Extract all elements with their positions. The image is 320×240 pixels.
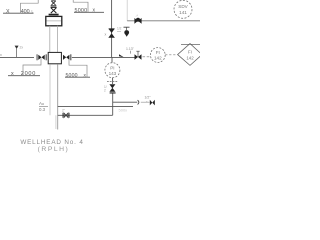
label X 2000 leader [23, 58, 41, 75]
svg-text:x: x [105, 33, 107, 37]
wellhead master block [48, 52, 61, 63]
label 5000 X leader [73, 0, 88, 12]
crown valve (second X valve) [51, 7, 57, 13]
svg-text:2000: 2000 [21, 71, 36, 77]
test branch continuation [141, 101, 150, 103]
riser segment below bubble [112, 78, 114, 84]
flowloop top line [58, 105, 133, 107]
kill line from left edge [0, 56, 34, 58]
FE top line [181, 43, 200, 45]
label X 400 underline [3, 12, 34, 14]
riser bleed valve caps [109, 29, 115, 38]
choke valve stem [136, 51, 139, 57]
svg-text:FI: FI [156, 50, 160, 55]
svg-text:400: 400 [21, 9, 30, 15]
swab valve (top small X valve) [51, 1, 56, 5]
riser lower segment [112, 94, 114, 116]
tree spool block [46, 16, 62, 25]
svg-text:143: 143 [109, 71, 117, 76]
utility connector [150, 100, 155, 106]
svg-text:(RPLH): (RPLH) [38, 146, 70, 153]
svg-text:0.3: 0.3 [39, 107, 46, 112]
choke label leader tick [130, 51, 132, 54]
instrument bubble SDV 141 [174, 0, 192, 18]
svg-text:1.13": 1.13" [126, 47, 135, 51]
svg-text:2: 2 [104, 88, 106, 92]
svg-text:x: x [0, 53, 2, 57]
hose break hook [138, 100, 139, 104]
svg-text:L: L [32, 10, 34, 14]
svg-text:141: 141 [179, 10, 187, 15]
svg-text:500x: 500x [119, 108, 128, 113]
tree cap flange bar [49, 14, 59, 16]
production wing valve [63, 54, 71, 60]
loop drain valve [63, 113, 69, 118]
annulus double line (lower) [49, 64, 51, 115]
flow harpoon arrow [119, 54, 124, 57]
tree spool midline [47, 20, 62, 22]
flowline to right [72, 56, 135, 58]
ESD header drop [126, 0, 128, 21]
svg-text:Aa: Aa [39, 101, 44, 106]
svg-text:1/2: 1/2 [117, 27, 122, 31]
casing line (lower) [57, 64, 59, 129]
casing stub left line [55, 115, 57, 129]
signal dashes to FI [143, 56, 151, 58]
flow element FE diamond [178, 44, 202, 66]
svg-text:142: 142 [186, 55, 194, 60]
needle valve body [109, 84, 115, 93]
tubing double line (upper) [49, 26, 51, 52]
signal dashes FI to FE [165, 54, 177, 56]
test branch line [113, 101, 138, 103]
label X 400 leader [21, 0, 39, 13]
grease fitting symbol [124, 26, 130, 28]
svg-text:FI: FI [188, 50, 192, 55]
SDV valve [134, 18, 141, 24]
riser vertical line [111, 0, 113, 57]
svg-text:5000: 5000 [75, 8, 88, 14]
svg-text:x: x [11, 71, 14, 77]
instrument bubble PI 143 [105, 63, 120, 78]
label 5000 X underline [74, 11, 104, 13]
label 5000 X (lower) underline [65, 76, 90, 78]
svg-text:PI: PI [110, 65, 114, 70]
SDV actuator ball [136, 18, 140, 22]
instrument bubble FI 142 [150, 48, 165, 63]
label X 2000 underline [8, 75, 40, 77]
svg-text:2x: 2x [20, 45, 24, 49]
kill wing valve [38, 54, 46, 60]
svg-text:2": 2" [62, 109, 65, 113]
test point flag [15, 46, 19, 49]
ESD header line [127, 20, 200, 22]
svg-text:5000: 5000 [66, 73, 78, 79]
label 5000 X (lower) leader [69, 59, 87, 77]
riser bleed valve (vertical bowtie) [109, 29, 115, 37]
riser mid segment [111, 57, 113, 62]
svg-text:X: X [6, 9, 10, 15]
flowloop bottom line [58, 114, 113, 116]
swab valve flange bar [51, 5, 57, 7]
svg-text:SDV: SDV [178, 4, 188, 9]
choke valve LCV [135, 54, 142, 60]
kill wing upstream flange [36, 54, 39, 60]
needle valve handle [107, 81, 118, 83]
svg-text:142: 142 [154, 56, 162, 61]
